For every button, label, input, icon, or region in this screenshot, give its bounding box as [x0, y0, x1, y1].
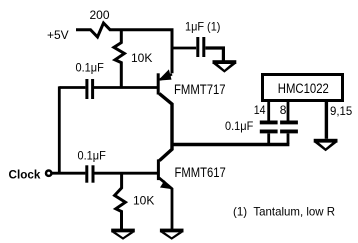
svg-text:9,15: 9,15 [330, 104, 353, 118]
svg-text:10K: 10K [133, 193, 154, 207]
svg-text:14: 14 [254, 103, 266, 117]
svg-text:+5V: +5V [47, 28, 69, 42]
svg-text:FMMT717: FMMT717 [174, 82, 226, 97]
svg-text:0.1μF: 0.1μF [225, 119, 253, 133]
svg-text:HMC1022: HMC1022 [278, 81, 329, 96]
svg-text:10K: 10K [131, 51, 152, 65]
svg-text:200: 200 [90, 8, 110, 22]
svg-text:1μF (1): 1μF (1) [185, 20, 220, 34]
svg-text:0.1μF: 0.1μF [76, 60, 104, 74]
svg-text:Clock: Clock [9, 167, 41, 181]
svg-text:(1) Tantalum, low R: (1) Tantalum, low R [233, 205, 335, 219]
svg-text:0.1μF: 0.1μF [78, 148, 106, 162]
svg-text:FMMT617: FMMT617 [175, 165, 226, 180]
svg-text:8: 8 [280, 103, 287, 117]
